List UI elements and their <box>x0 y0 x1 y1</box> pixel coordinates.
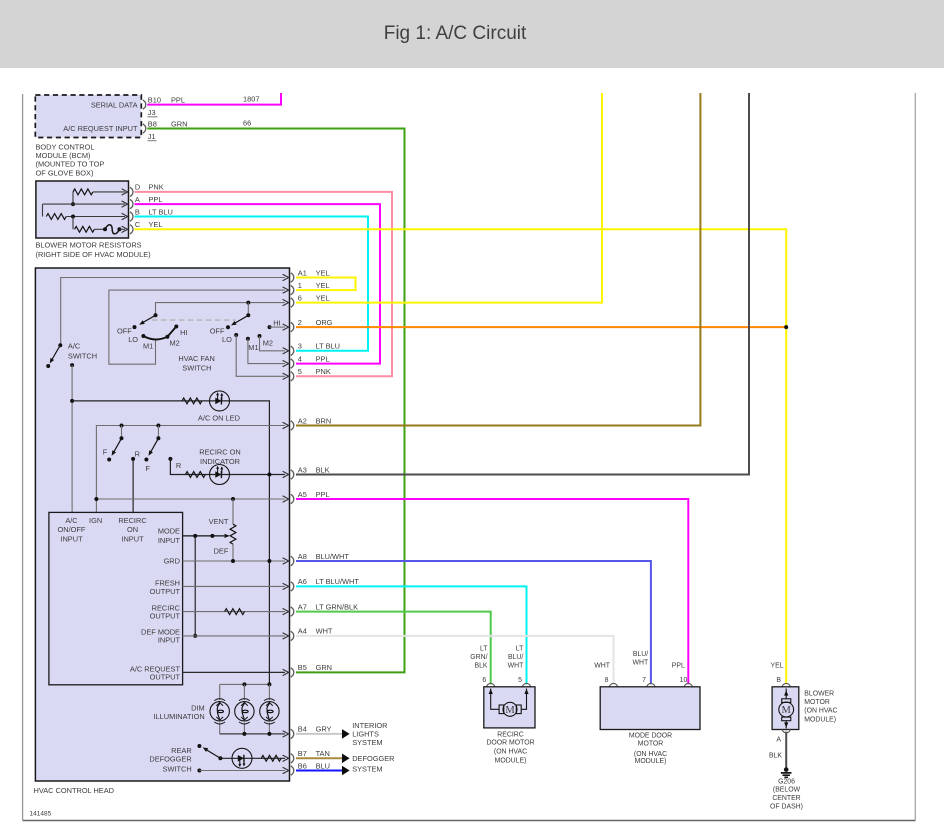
svg-text:PPL: PPL <box>171 95 185 104</box>
connector pin 2 ORG <box>291 322 294 331</box>
svg-text:MODULE): MODULE) <box>804 716 836 723</box>
inner control box <box>49 512 183 684</box>
wire A/C REQUEST to B5 <box>183 671 285 673</box>
svg-text:MODULE (BCM): MODULE (BCM) <box>36 151 91 160</box>
node LED to A3 line <box>267 473 271 477</box>
svg-text:SYSTEM: SYSTEM <box>352 738 382 747</box>
svg-text:D: D <box>135 183 140 192</box>
connector pin 5 PNK <box>291 372 294 381</box>
wire PPL A5 to mode door pin 10 <box>296 499 688 684</box>
svg-text:HI: HI <box>273 318 280 327</box>
wire BLU/WHT A8 to mode door pin 7 <box>296 561 651 684</box>
svg-text:YEL: YEL <box>149 220 163 229</box>
svg-text:CENTER: CENTER <box>772 795 800 802</box>
svg-text:TAN: TAN <box>316 749 330 758</box>
resistor bottom C <box>75 226 95 232</box>
svg-text:BRN: BRN <box>316 416 332 425</box>
svg-text:RECIRC: RECIRC <box>118 516 147 525</box>
node A/C LED feed <box>70 399 74 403</box>
svg-text:A7: A7 <box>298 602 307 611</box>
svg-text:WHT: WHT <box>632 659 648 666</box>
svg-text:IGN: IGN <box>89 516 102 525</box>
svg-text:A1: A1 <box>298 268 307 277</box>
svg-text:A/C REQUEST INPUT: A/C REQUEST INPUT <box>63 124 138 133</box>
wire A1 rail <box>61 278 285 346</box>
node on rail for right fan switch <box>246 301 250 305</box>
svg-text:B6: B6 <box>298 761 307 770</box>
wire PNK resistor D to pin 5 <box>135 192 393 376</box>
wire defogger LED line to B7 <box>220 757 285 759</box>
frame right line <box>914 93 916 821</box>
svg-text:B5: B5 <box>298 663 307 672</box>
svg-text:BLU: BLU <box>316 761 330 770</box>
connector pin B6 BLU <box>291 766 294 775</box>
svg-text:OUTPUT: OUTPUT <box>150 587 181 596</box>
svg-text:R: R <box>135 449 140 458</box>
wire BLK blower to ground <box>785 732 787 768</box>
connector pin 6 YEL <box>291 298 294 307</box>
svg-text:BLU/WHT: BLU/WHT <box>316 552 350 561</box>
svg-text:(ON HVAC: (ON HVAC <box>634 751 667 758</box>
svg-text:1: 1 <box>298 281 302 290</box>
wire BLK A3 to top <box>296 93 749 475</box>
svg-text:HVAC CONTROL HEAD: HVAC CONTROL HEAD <box>34 786 114 795</box>
connector pin 1 YEL <box>291 285 294 294</box>
svg-text:RECIRC: RECIRC <box>497 731 523 738</box>
wire RECIRC OUTPUT to A7 <box>183 611 285 613</box>
svg-text:PPL: PPL <box>316 490 330 499</box>
lamp 3 <box>260 699 279 724</box>
svg-text:INPUT: INPUT <box>121 535 144 544</box>
wire M2 to pin 3 <box>260 336 286 351</box>
connector pin A <box>130 199 133 208</box>
wire BLU B6 <box>296 770 342 772</box>
wire BRN A2 to top <box>296 93 700 426</box>
wire A row <box>43 204 126 216</box>
svg-text:LT BLU: LT BLU <box>149 207 173 216</box>
connector pin B <box>130 212 133 221</box>
svg-text:HI: HI <box>180 328 187 337</box>
svg-text:BLU/: BLU/ <box>633 651 648 658</box>
svg-text:G206: G206 <box>778 778 795 785</box>
svg-text:PPL: PPL <box>672 663 685 670</box>
svg-text:PNK: PNK <box>316 367 331 376</box>
svg-text:PPL: PPL <box>316 354 330 363</box>
svg-text:ON: ON <box>127 525 138 534</box>
svg-text:A6: A6 <box>298 577 307 586</box>
dim illumination lamp rails <box>220 683 270 685</box>
svg-text:141485: 141485 <box>30 811 52 818</box>
svg-text:A: A <box>135 195 140 204</box>
wire A/C ON LED line <box>72 401 269 685</box>
svg-text:WHT: WHT <box>594 663 610 670</box>
wire A5 ign rail <box>96 498 285 500</box>
contact R switch 1 <box>131 457 135 461</box>
wire B6 line <box>197 769 201 773</box>
wire fan pin 6 rail <box>156 303 286 316</box>
body control module BCM box <box>35 95 141 138</box>
svg-text:PPL: PPL <box>149 195 163 204</box>
svg-text:OUTPUT: OUTPUT <box>150 672 181 681</box>
svg-text:J1: J1 <box>148 132 156 141</box>
resistor A/C LED <box>182 398 202 404</box>
connector pin 3 LT BLU <box>291 346 294 355</box>
connector pin A5 PPL <box>291 494 294 503</box>
wire M1 to pin 4 <box>248 339 285 364</box>
svg-text:MODE: MODE <box>158 527 180 536</box>
svg-text:SYSTEM: SYSTEM <box>352 765 382 774</box>
wire ORG pin 2 <box>296 326 786 328</box>
svg-text:M1: M1 <box>248 343 258 352</box>
frame bottom line <box>23 820 916 822</box>
ground G206 <box>784 767 789 772</box>
wire A2 rail <box>96 426 285 512</box>
svg-text:SERIAL DATA: SERIAL DATA <box>91 100 138 109</box>
wire LT GRN/BLK A7 to recirc pin 6 <box>296 612 491 685</box>
svg-text:MODULE): MODULE) <box>635 758 667 765</box>
mode door motor box <box>600 687 700 730</box>
svg-text:INDICATOR: INDICATOR <box>200 457 240 466</box>
svg-text:BLK: BLK <box>316 465 330 474</box>
svg-text:DEF: DEF <box>214 546 229 555</box>
svg-text:HVAC FAN: HVAC FAN <box>178 354 214 363</box>
svg-text:MOTOR: MOTOR <box>804 699 830 706</box>
wire pot feed <box>232 499 234 524</box>
svg-text:A3: A3 <box>298 465 307 474</box>
wire GRY B4 <box>296 733 342 735</box>
svg-text:5: 5 <box>518 677 522 684</box>
F/R switch 2 <box>156 424 160 428</box>
svg-text:YEL: YEL <box>316 281 330 290</box>
node dot A <box>71 202 75 206</box>
svg-text:GRY: GRY <box>316 725 332 734</box>
svg-text:(ON HVAC: (ON HVAC <box>804 708 837 715</box>
svg-text:OF GLOVE BOX): OF GLOVE BOX) <box>36 168 94 177</box>
svg-text:DEFOGGER: DEFOGGER <box>352 754 394 763</box>
svg-text:PNK: PNK <box>149 183 164 192</box>
svg-text:66: 66 <box>243 119 251 128</box>
frame left line <box>22 94 24 821</box>
wire recirc indicator line <box>170 459 285 475</box>
svg-text:LO: LO <box>222 335 232 344</box>
svg-text:B: B <box>776 677 781 684</box>
svg-text:ON/OFF: ON/OFF <box>58 525 86 534</box>
svg-text:B: B <box>135 207 140 216</box>
connector pin B4 GRY <box>291 729 294 738</box>
svg-text:1807: 1807 <box>243 95 259 104</box>
blower motor box <box>772 687 799 730</box>
connector pin A2 BRN <box>291 421 294 430</box>
svg-text:(ON HVAC: (ON HVAC <box>494 749 527 756</box>
connector pin C <box>130 225 133 234</box>
HVAC fan switch left wafer <box>154 313 158 317</box>
wire pot bottom to GRD <box>232 544 234 561</box>
resistor defogger <box>261 755 281 761</box>
wiper mode input <box>183 535 225 537</box>
wire vertical to A node <box>72 192 74 204</box>
svg-text:GRN/: GRN/ <box>470 654 487 661</box>
svg-text:A/C ON LED: A/C ON LED <box>198 414 240 423</box>
svg-text:Fig 1: A/C Circuit: Fig 1: A/C Circuit <box>384 23 527 44</box>
svg-text:BLOWER: BLOWER <box>804 690 834 697</box>
svg-text:B4: B4 <box>298 725 307 734</box>
connector pin A1 YEL <box>291 273 294 282</box>
connector pin B10 <box>143 100 146 109</box>
arrow to defogger system B6 <box>342 766 350 776</box>
resistor top D <box>73 189 93 195</box>
LED A/C ON <box>210 391 230 411</box>
svg-text:INPUT: INPUT <box>60 535 83 544</box>
svg-text:10: 10 <box>680 677 688 684</box>
svg-text:WHT: WHT <box>508 663 524 670</box>
svg-text:MODE DOOR: MODE DOOR <box>629 733 672 740</box>
node dot B <box>71 215 75 219</box>
svg-text:(MOUNTED TO TOP: (MOUNTED TO TOP <box>36 160 105 169</box>
svg-text:C: C <box>135 220 141 229</box>
svg-text:M2: M2 <box>170 339 180 348</box>
svg-text:RECIRC ON: RECIRC ON <box>199 447 240 456</box>
svg-text:A/C: A/C <box>65 516 78 525</box>
svg-text:GRN: GRN <box>316 663 332 672</box>
wire GRD to A8 <box>183 560 285 562</box>
svg-text:BLK: BLK <box>769 753 782 760</box>
connector pin 4 PPL <box>291 359 294 368</box>
wire WHT A4 to mode door pin 8 <box>296 636 614 684</box>
svg-text:(BELOW: (BELOW <box>773 787 801 794</box>
junction orange-yellow <box>784 325 788 329</box>
pin A blower <box>782 729 790 733</box>
lamp 1 <box>210 699 229 724</box>
svg-text:YEL: YEL <box>770 663 783 670</box>
svg-text:B8: B8 <box>148 119 157 128</box>
svg-text:SWITCH: SWITCH <box>163 764 192 773</box>
resistor recirc output <box>225 609 245 615</box>
svg-text:INTERIOR: INTERIOR <box>352 721 387 730</box>
svg-text:INPUT: INPUT <box>158 635 181 644</box>
svg-text:ILLUMINATION: ILLUMINATION <box>153 712 204 721</box>
svg-text:R: R <box>176 461 181 470</box>
thermal limiter <box>103 227 107 231</box>
svg-text:VENT: VENT <box>209 517 229 526</box>
svg-text:LIGHTS: LIGHTS <box>352 730 379 739</box>
blower motor resistors box <box>36 181 129 238</box>
svg-text:LT GRN/BLK: LT GRN/BLK <box>316 602 359 611</box>
LED defogger <box>232 748 252 768</box>
connector pin A8 BLU/WHT <box>291 556 294 565</box>
svg-text:OF DASH): OF DASH) <box>770 803 803 810</box>
wire YEL pin 6 to top <box>296 93 602 303</box>
connector pin A4 WHT <box>291 631 294 640</box>
svg-text:ORG: ORG <box>316 318 333 327</box>
svg-text:3: 3 <box>298 342 302 351</box>
wire fan pin 1 loop <box>109 290 285 364</box>
potentiometer vent-def <box>230 524 236 544</box>
svg-text:A: A <box>776 737 781 744</box>
svg-text:WHT: WHT <box>316 627 333 636</box>
svg-text:F: F <box>145 464 150 473</box>
wire GRN 66 from B8 down to B5 <box>147 129 404 673</box>
connector pin D <box>130 187 133 196</box>
contact R switch 2 <box>168 457 172 461</box>
svg-text:7: 7 <box>642 677 646 684</box>
wire LT BLU resistor B to pin 3 <box>135 217 369 351</box>
wire HI to pin 2 <box>270 326 286 328</box>
svg-text:BLOWER MOTOR RESISTORS: BLOWER MOTOR RESISTORS <box>36 241 142 250</box>
svg-text:LT: LT <box>516 646 524 653</box>
svg-text:INPUT: INPUT <box>158 536 181 545</box>
connector pin A6 LT BLU/WHT <box>291 582 294 591</box>
wire DEF MODE to A4 <box>183 635 285 637</box>
connector pin A3 BLK <box>291 470 294 479</box>
wire TAN B7 <box>296 757 342 759</box>
svg-text:6: 6 <box>298 293 302 302</box>
svg-text:A8: A8 <box>298 552 307 561</box>
svg-text:A5: A5 <box>298 490 307 499</box>
svg-text:LO: LO <box>128 335 138 344</box>
wire B4 rail <box>220 733 285 735</box>
svg-text:8: 8 <box>605 677 609 684</box>
connector pin B8 <box>143 124 146 133</box>
svg-text:DEFOGGER: DEFOGGER <box>149 755 191 764</box>
wire vertical to C row <box>72 217 74 230</box>
title bar <box>0 0 944 68</box>
svg-text:M: M <box>782 705 792 716</box>
wire R1 down to inner box <box>132 459 134 512</box>
svg-text:M: M <box>505 705 515 716</box>
svg-text:OUTPUT: OUTPUT <box>150 611 181 620</box>
connector pin A7 LT GRN/BLK <box>291 607 294 616</box>
wire mode to def mode <box>194 536 196 636</box>
wire PPL resistor A to pin 4 <box>135 204 381 364</box>
svg-text:4: 4 <box>298 354 302 363</box>
svg-text:GRN: GRN <box>171 119 187 128</box>
svg-text:MODULE): MODULE) <box>495 757 527 764</box>
svg-text:GRD: GRD <box>164 557 180 566</box>
svg-text:LT BLU/WHT: LT BLU/WHT <box>316 577 360 586</box>
wire YEL jumper A1 to 1 <box>296 278 356 291</box>
connector pin B5 GRN <box>291 668 294 677</box>
svg-text:A4: A4 <box>298 627 307 636</box>
wire A/C switch output down to inner box <box>70 363 74 367</box>
recirc door motor box <box>484 687 535 728</box>
svg-text:J3: J3 <box>148 108 156 117</box>
svg-text:6: 6 <box>482 677 486 684</box>
svg-text:BLU/: BLU/ <box>508 654 523 661</box>
svg-text:LT: LT <box>480 646 488 653</box>
svg-text:A2: A2 <box>298 416 307 425</box>
svg-text:MOTOR: MOTOR <box>638 741 664 748</box>
svg-text:2: 2 <box>298 318 302 327</box>
resistor mid B <box>46 214 66 220</box>
LED recirc on indicator <box>210 465 230 485</box>
svg-text:DIM: DIM <box>191 704 205 713</box>
wire LT BLU/WHT A6 to recirc pin 5 <box>296 586 527 684</box>
resistor recirc indicator <box>185 472 205 478</box>
svg-text:(RIGHT SIDE OF HVAC MODULE): (RIGHT SIDE OF HVAC MODULE) <box>36 250 151 259</box>
lamp 2 <box>235 699 254 724</box>
arrow to interior lights system <box>342 729 350 739</box>
svg-text:A/C: A/C <box>68 341 81 350</box>
svg-text:SWITCH: SWITCH <box>68 352 97 361</box>
svg-text:M1: M1 <box>143 342 153 351</box>
wire FRESH to A6 <box>183 585 285 587</box>
wire LO to pin 5 <box>236 335 285 376</box>
svg-text:5: 5 <box>298 367 302 376</box>
svg-text:B7: B7 <box>298 749 307 758</box>
arrow to defogger system B7 <box>342 754 350 764</box>
mechanical link dashed <box>152 319 236 321</box>
wire PPL 1807 serial data <box>147 93 281 105</box>
svg-text:F: F <box>103 447 108 456</box>
svg-text:BODY CONTROL: BODY CONTROL <box>36 142 95 151</box>
svg-text:DOOR MOTOR: DOOR MOTOR <box>486 740 534 747</box>
svg-text:YEL: YEL <box>316 268 330 277</box>
F/R switch 1 <box>120 424 124 428</box>
svg-text:M2: M2 <box>263 339 273 348</box>
HVAC fan switch right wafer <box>246 313 250 317</box>
svg-text:LT BLU: LT BLU <box>316 342 340 351</box>
svg-text:YEL: YEL <box>316 293 330 302</box>
svg-text:SWITCH: SWITCH <box>182 363 211 372</box>
A/C switch <box>58 343 62 347</box>
svg-text:BLK: BLK <box>474 663 487 670</box>
connector pin B7 TAN <box>291 754 294 763</box>
svg-text:B10: B10 <box>148 95 161 104</box>
wire YEL resistor C to blower motor <box>135 229 787 684</box>
HVAC control head box <box>35 268 289 781</box>
